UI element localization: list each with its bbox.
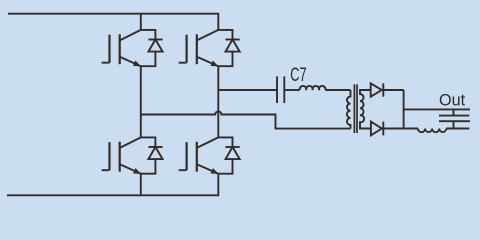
Q3 emitter slant with arrow [120, 164, 141, 174]
Q4 body bar [196, 142, 198, 172]
Q1 gate bar [108, 35, 110, 63]
Q3 body bar [119, 142, 121, 172]
inductor L2 (output choke) [418, 129, 446, 133]
rectifier diode D5 (top) [371, 83, 404, 96]
wire: C7 to L1 [284, 89, 300, 91]
svg-text:C7: C7 [290, 63, 306, 86]
Q3 collector slant [120, 137, 141, 148]
Q4 emitter slant with arrow [197, 164, 219, 174]
wire: bridge output B with crossover hop [141, 111, 351, 128]
transformer T1 core [354, 84, 357, 133]
wire: left leg top feed [140, 14, 142, 30]
wire: L1 to transformer primary [325, 89, 350, 91]
wire: right leg middle [217, 66, 219, 137]
rectifier diode D6 (bottom) [371, 122, 418, 136]
IGBT Q1 (upper-left) [102, 30, 141, 66]
bottom DC bus rail [7, 174, 218, 196]
wire: rectifier join vertical [403, 90, 405, 129]
Q1 collector slant [120, 30, 141, 41]
Q2 collector slant [197, 30, 219, 41]
IGBT Q3 (lower-left) [102, 137, 141, 173]
capacitor C7 [277, 76, 284, 103]
transformer T1 primary winding [347, 90, 351, 129]
capacitor C8 (output filter) [439, 109, 470, 128]
svg-text:Out: Out [439, 91, 466, 109]
IGBT Q4 (lower-right) [179, 137, 219, 173]
diode D4 (freewheel of Q4) [218, 137, 239, 173]
Q2 gate lead [179, 62, 187, 64]
wire: L2 to output [446, 128, 469, 130]
Q4 collector slant [197, 137, 219, 148]
wire: left leg middle [140, 66, 142, 137]
Q2 body bar [196, 34, 198, 64]
diode D3 (freewheel of Q3) [141, 137, 163, 173]
wire: bridge output A (right leg node to C7) [218, 89, 277, 91]
transformer T1 secondary winding [360, 90, 371, 129]
Q3 gate bar [108, 142, 110, 170]
diode D2 (freewheel of Q2) [218, 30, 239, 66]
diode D1 (freewheel of Q1) [141, 30, 163, 66]
Q4 gate lead [179, 169, 187, 171]
wire: left leg bottom [140, 174, 142, 196]
Q1 emitter slant with arrow [120, 57, 141, 66]
Q2 emitter slant with arrow [197, 57, 219, 66]
Q3 gate lead [102, 169, 110, 171]
Q2 gate bar [186, 35, 188, 63]
inductor L1 (series resonant coil) [300, 86, 326, 90]
Q1 gate lead [102, 62, 110, 64]
Q1 body bar [119, 34, 121, 64]
wire: output top rail [404, 108, 470, 110]
IGBT Q2 (upper-right) [179, 30, 219, 66]
top DC bus rail [8, 14, 218, 30]
Q4 gate bar [186, 142, 188, 170]
